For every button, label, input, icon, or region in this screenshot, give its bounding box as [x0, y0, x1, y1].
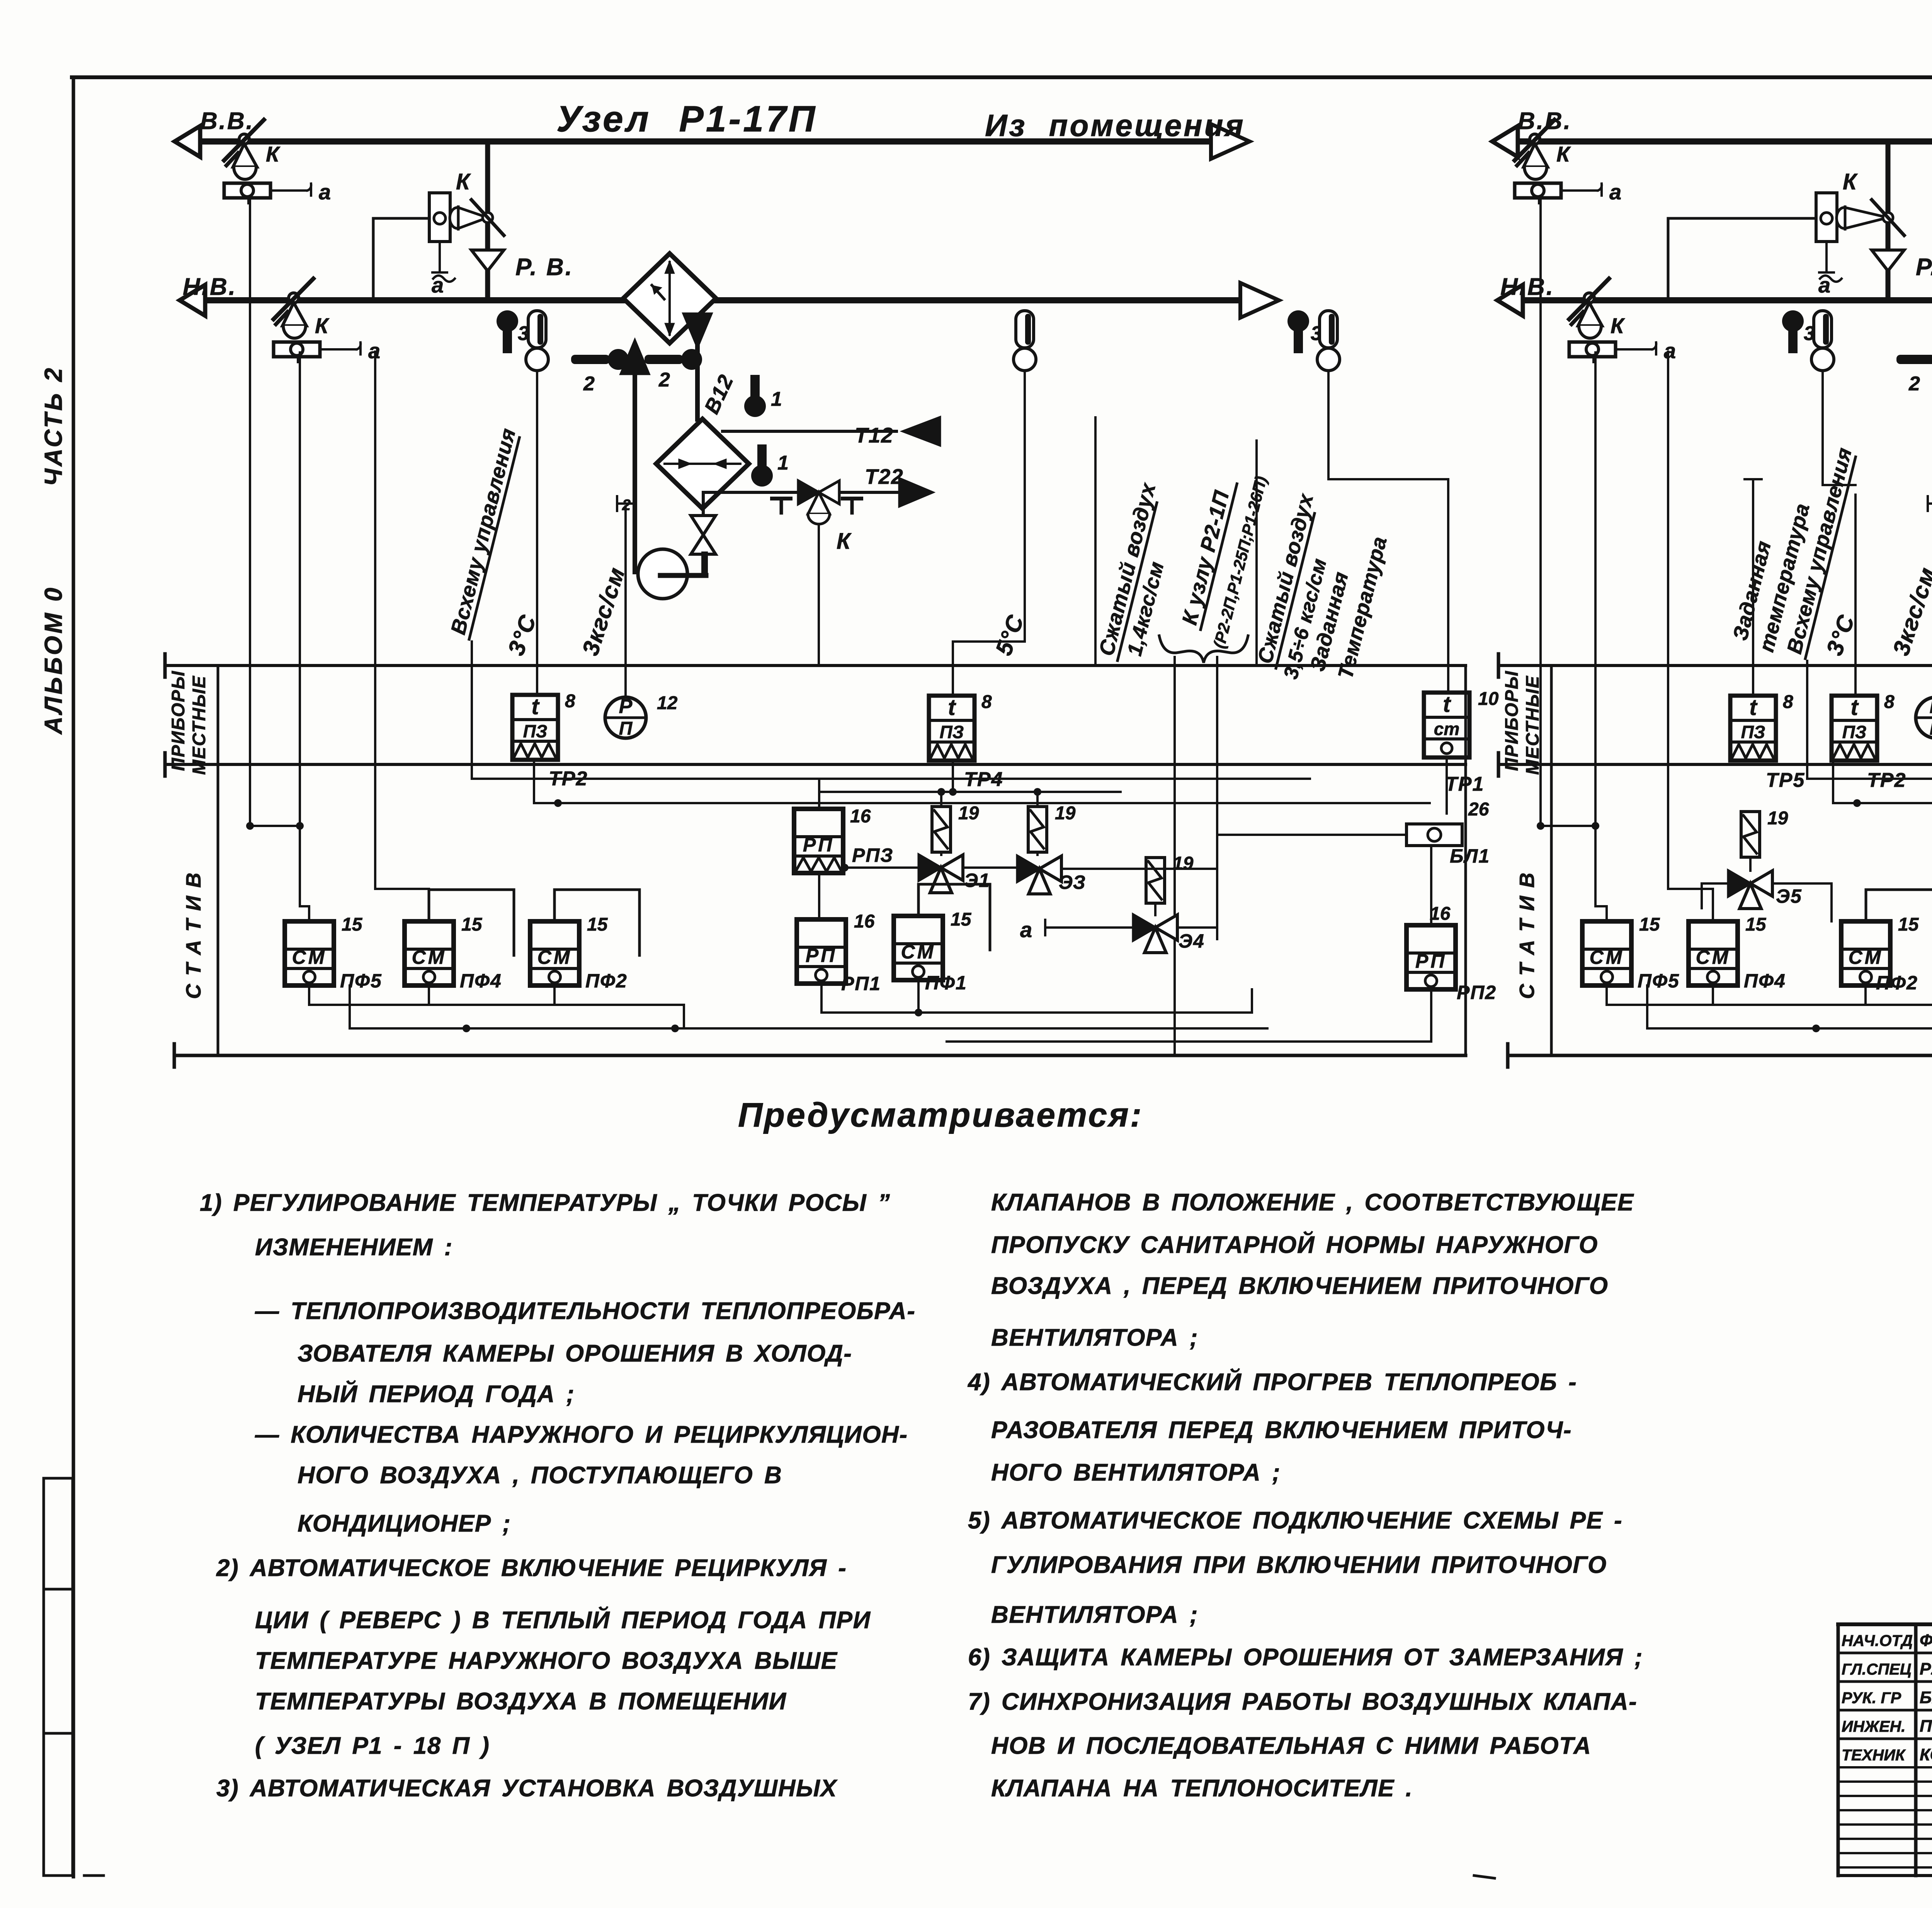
svg-text:НЫЙ ПЕРИОД ГОДА ;: НЫЙ ПЕРИОД ГОДА ; [298, 1380, 575, 1408]
svg-text:1: 1 [777, 452, 789, 474]
svg-text:ЗОВАТЕЛЯ КАМЕРЫ ОРОШЕНИЯ: ЗОВАТЕЛЯ КАМЕРЫ ОРОШЕНИЯ В ХОЛОД- [298, 1340, 852, 1367]
svg-text:К: К [837, 529, 852, 554]
svg-text:РП2: РП2 [1457, 982, 1497, 1003]
svg-text:7) СИНХРОНИЗАЦИЯ РАБОТЫ ВО: 7) СИНХРОНИЗАЦИЯ РАБОТЫ ВОЗДУШНЫХ КЛАПА- [968, 1688, 1637, 1715]
svg-text:СМ: СМ [1696, 946, 1731, 968]
svg-text:26: 26 [1468, 799, 1489, 820]
svg-text:15: 15 [951, 909, 972, 930]
svg-text:15: 15 [1745, 914, 1767, 935]
svg-text:4) АВТОМАТИЧЕСКИЙ ПРОГРЕВ: 4) АВТОМАТИЧЕСКИЙ ПРОГРЕВ ТЕПЛОПРЕОБ - [967, 1368, 1577, 1396]
svg-text:СМ: СМ [292, 946, 327, 968]
svg-text:ПЗ: ПЗ [1741, 722, 1765, 742]
svg-text:а: а [1664, 339, 1676, 363]
svg-text:2: 2 [583, 373, 595, 395]
svg-text:ПФ2: ПФ2 [1876, 972, 1918, 994]
svg-text:СМ: СМ [412, 946, 447, 968]
svg-text:Т22: Т22 [865, 465, 904, 488]
svg-text:ТЕХНИК: ТЕХНИК [1842, 1746, 1906, 1764]
svg-text:16: 16 [1430, 904, 1451, 924]
svg-text:Э1: Э1 [964, 870, 990, 891]
svg-text:ТЕМПЕРАТУРЕ НАРУЖНОГО ВОЗД: ТЕМПЕРАТУРЕ НАРУЖНОГО ВОЗДУХА ВЫШЕ [255, 1648, 838, 1674]
svg-text:2: 2 [622, 497, 631, 514]
svg-text:КОБЗЕВА: КОБЗЕВА [1920, 1745, 1932, 1764]
svg-text:БРОНШТЕЙН: БРОНШТЕЙН [1920, 1687, 1932, 1707]
svg-text:Т12: Т12 [855, 423, 894, 447]
svg-text:2: 2 [658, 369, 670, 391]
svg-text:ПЗ: ПЗ [523, 721, 548, 741]
svg-text:ТР5: ТР5 [1766, 769, 1805, 791]
svg-text:ПРИБОРЫ: ПРИБОРЫ [1501, 670, 1522, 771]
svg-text:С Т А Т И В: С Т А Т И В [182, 871, 205, 999]
svg-text:ПФ4: ПФ4 [1744, 970, 1786, 992]
svg-text:19: 19 [958, 803, 979, 824]
svg-text:РП: РП [803, 834, 834, 856]
svg-text:Р: Р [619, 695, 633, 718]
svg-text:8: 8 [981, 692, 992, 712]
svg-text:РП1: РП1 [841, 973, 881, 994]
svg-text:СМ: СМ [1590, 946, 1624, 968]
svg-text:РУК. ГР: РУК. ГР [1842, 1689, 1901, 1707]
svg-text:ТР2: ТР2 [1867, 769, 1906, 791]
svg-text:15: 15 [1639, 914, 1660, 935]
svg-text:8: 8 [1783, 692, 1793, 712]
svg-text:П: П [1930, 718, 1932, 739]
svg-text:ИНЖЕН.: ИНЖЕН. [1842, 1717, 1905, 1735]
svg-text:12: 12 [657, 693, 678, 713]
svg-text:t: t [531, 694, 540, 719]
svg-text:Р: Р [1930, 695, 1932, 718]
svg-text:БЛ1: БЛ1 [1450, 845, 1490, 867]
svg-text:ПЗ: ПЗ [1842, 722, 1867, 742]
svg-text:ФИНГЕР: ФИНГЕР [1920, 1631, 1932, 1650]
svg-text:Из помещения: Из помещения [985, 108, 1245, 143]
svg-text:6) ЗАЩИТА КАМЕРЫ ОРОШЕНИЯ: 6) ЗАЩИТА КАМЕРЫ ОРОШЕНИЯ ОТ ЗАМЕРЗАНИЯ … [968, 1644, 1643, 1671]
svg-text:Э4: Э4 [1179, 930, 1205, 952]
svg-text:РП: РП [1415, 950, 1447, 972]
svg-text:ТР1: ТР1 [1445, 773, 1484, 795]
svg-text:t: t [948, 695, 956, 720]
svg-text:8: 8 [565, 691, 575, 711]
svg-text:К: К [1556, 142, 1571, 166]
svg-text:1) РЕГУЛИРОВАНИЕ ТЕМПЕРАТУРЫ: 1) РЕГУЛИРОВАНИЕ ТЕМПЕРАТУРЫ „ ТОЧКИ РОС… [200, 1190, 890, 1216]
svg-text:ЭЗ: ЭЗ [1059, 871, 1086, 893]
svg-text:КЛАПАНА НА ТЕПЛОНОСИТЕЛЕ: КЛАПАНА НА ТЕПЛОНОСИТЕЛЕ . [991, 1775, 1413, 1802]
svg-text:ЦИИ ( РЕВЕРС ) В ТЕПЛЫЙ ПЕ: ЦИИ ( РЕВЕРС ) В ТЕПЛЫЙ ПЕРИОД ГОДА ПРИ [255, 1606, 871, 1634]
svg-text:КОНДИЦИОНЕР ;: КОНДИЦИОНЕР ; [298, 1510, 511, 1537]
svg-text:— ТЕПЛОПРОИЗВОДИТЕЛЬНОСТИ Т: — ТЕПЛОПРОИЗВОДИТЕЛЬНОСТИ ТЕПЛОПРЕОБРА- [255, 1298, 915, 1324]
svg-text:15: 15 [587, 914, 608, 935]
svg-text:АЛЬБОМ 0: АЛЬБОМ 0 [39, 586, 67, 735]
svg-text:15: 15 [342, 914, 363, 935]
svg-text:19: 19 [1173, 853, 1194, 874]
svg-text:РПЗ: РПЗ [852, 844, 893, 866]
svg-text:СМ: СМ [1849, 946, 1883, 968]
svg-text:МЕСТНЫЕ: МЕСТНЫЕ [189, 675, 209, 775]
svg-text:16: 16 [850, 806, 871, 827]
svg-text:ПФ5: ПФ5 [340, 970, 382, 992]
svg-text:а: а [1609, 180, 1621, 204]
svg-text:НАЧ.ОТД: НАЧ.ОТД [1842, 1632, 1913, 1649]
svg-text:С Т А Т И В: С Т А Т И В [1515, 871, 1539, 999]
svg-text:КЛАПАНОВ В ПОЛОЖЕНИЕ , СООТ: КЛАПАНОВ В ПОЛОЖЕНИЕ , СООТВЕТСТВУЮЩЕЕ [991, 1189, 1634, 1216]
svg-text:РУБЧИНСКИЙ: РУБЧИНСКИЙ [1920, 1659, 1932, 1678]
svg-text:НОГО ВЕНТИЛЯТОРА ;: НОГО ВЕНТИЛЯТОРА ; [991, 1459, 1281, 1486]
svg-text:ст: ст [1434, 719, 1459, 739]
svg-text:15: 15 [461, 914, 483, 935]
svg-text:СМ: СМ [537, 946, 572, 968]
svg-text:а: а [1020, 917, 1032, 942]
svg-text:( УЗЕЛ Р1 - 18 П ): ( УЗЕЛ Р1 - 18 П ) [255, 1733, 490, 1759]
svg-text:ЧАСТЬ 2: ЧАСТЬ 2 [39, 366, 67, 486]
svg-text:19: 19 [1767, 808, 1788, 829]
svg-text:8: 8 [1884, 692, 1895, 712]
svg-text:Э5: Э5 [1776, 885, 1802, 907]
svg-text:2) АВТОМАТИЧЕСКОЕ ВКЛЮЧЕНИЕ: 2) АВТОМАТИЧЕСКОЕ ВКЛЮЧЕНИЕ РЕЦИРКУЛЯ - [216, 1555, 847, 1581]
svg-text:ПРОПУСКУ САНИТАРНОЙ НОРМЫ: ПРОПУСКУ САНИТАРНОЙ НОРМЫ НАРУЖНОГО [991, 1231, 1598, 1258]
svg-text:ПЗ: ПЗ [940, 722, 964, 742]
svg-text:ПФ1: ПФ1 [925, 972, 967, 994]
svg-text:ТЕМПЕРАТУРЫ ВОЗДУХА В ПО: ТЕМПЕРАТУРЫ ВОЗДУХА В ПОМЕЩЕНИИ [255, 1688, 787, 1715]
svg-text:3) АВТОМАТИЧЕСКАЯ УСТАНОВКА: 3) АВТОМАТИЧЕСКАЯ УСТАНОВКА ВОЗДУШНЫХ [216, 1775, 838, 1802]
svg-text:Предусматривается:: Предусматривается: [738, 1096, 1143, 1134]
svg-text:16: 16 [854, 911, 875, 932]
svg-text:РАЗОВАТЕЛЯ ПЕРЕД ВКЛЮЧЕНИЕМ: РАЗОВАТЕЛЯ ПЕРЕД ВКЛЮЧЕНИЕМ ПРИТОЧ- [991, 1417, 1572, 1443]
svg-text:t: t [1850, 695, 1859, 720]
svg-text:а: а [319, 180, 331, 204]
svg-text:ПФ5: ПФ5 [1638, 970, 1680, 992]
svg-text:ВЕНТИЛЯТОРА ;: ВЕНТИЛЯТОРА ; [991, 1602, 1198, 1628]
svg-text:— КОЛИЧЕСТВА НАРУЖНОГО И: — КОЛИЧЕСТВА НАРУЖНОГО И РЕЦИРКУЛЯЦИОН- [255, 1421, 908, 1448]
svg-text:5) АВТОМАТИЧЕСКОЕ ПОДКЛЮЧЕНИ: 5) АВТОМАТИЧЕСКОЕ ПОДКЛЮЧЕНИЕ СХЕМЫ РЕ - [968, 1507, 1622, 1534]
svg-text:10: 10 [1478, 689, 1499, 709]
svg-text:ПРОБИН: ПРОБИН [1920, 1717, 1932, 1736]
svg-text:НОГО ВОЗДУХА , ПОСТУПАЮЩЕГО: НОГО ВОЗДУХА , ПОСТУПАЮЩЕГО В [298, 1462, 782, 1489]
svg-text:15: 15 [1898, 914, 1919, 935]
svg-text:Р. В.: Р. В. [1916, 254, 1932, 281]
svg-text:t: t [1443, 692, 1451, 717]
svg-text:ИЗМЕНЕНИЕМ :: ИЗМЕНЕНИЕМ : [255, 1234, 453, 1261]
svg-text:Н.В.: Н.В. [1500, 274, 1554, 300]
svg-text:t: t [1749, 695, 1758, 720]
svg-text:К: К [1611, 313, 1625, 338]
svg-text:К: К [315, 313, 330, 338]
svg-text:ПФ4: ПФ4 [460, 970, 502, 992]
svg-text:НОВ И ПОСЛЕДОВАТЕЛЬНАЯ С: НОВ И ПОСЛЕДОВАТЕЛЬНАЯ С НИМИ РАБОТА [991, 1733, 1591, 1759]
svg-text:ПРИБОРЫ: ПРИБОРЫ [168, 670, 188, 771]
svg-text:1: 1 [771, 388, 782, 410]
svg-text:ПФ2: ПФ2 [585, 970, 628, 992]
svg-text:К: К [1843, 169, 1858, 194]
svg-text:РП: РП [806, 945, 837, 966]
svg-text:Н.В.: Н.В. [183, 274, 237, 300]
svg-text:К: К [456, 169, 471, 194]
svg-text:ГЛ.СПЕЦ: ГЛ.СПЕЦ [1842, 1660, 1912, 1678]
svg-text:К: К [266, 142, 281, 166]
svg-text:ВОЗДУХА , ПЕРЕД ВКЛЮЧЕНИЕМ: ВОЗДУХА , ПЕРЕД ВКЛЮЧЕНИЕМ ПРИТОЧНОГО [991, 1273, 1608, 1299]
svg-text:В.В.: В.В. [200, 108, 254, 134]
svg-text:Р. В.: Р. В. [515, 254, 573, 281]
svg-text:ГУЛИРОВАНИЯ ПРИ ВКЛЮЧЕНИИ: ГУЛИРОВАНИЯ ПРИ ВКЛЮЧЕНИИ ПРИТОЧНОГО [991, 1552, 1607, 1578]
svg-text:СМ: СМ [901, 941, 936, 963]
svg-text:2: 2 [1908, 373, 1920, 395]
svg-text:ВЕНТИЛЯТОРА ;: ВЕНТИЛЯТОРА ; [991, 1324, 1198, 1351]
svg-text:19: 19 [1055, 803, 1076, 824]
svg-text:Узел Р1-17П: Узел Р1-17П [556, 99, 817, 140]
svg-text:П: П [619, 718, 633, 739]
